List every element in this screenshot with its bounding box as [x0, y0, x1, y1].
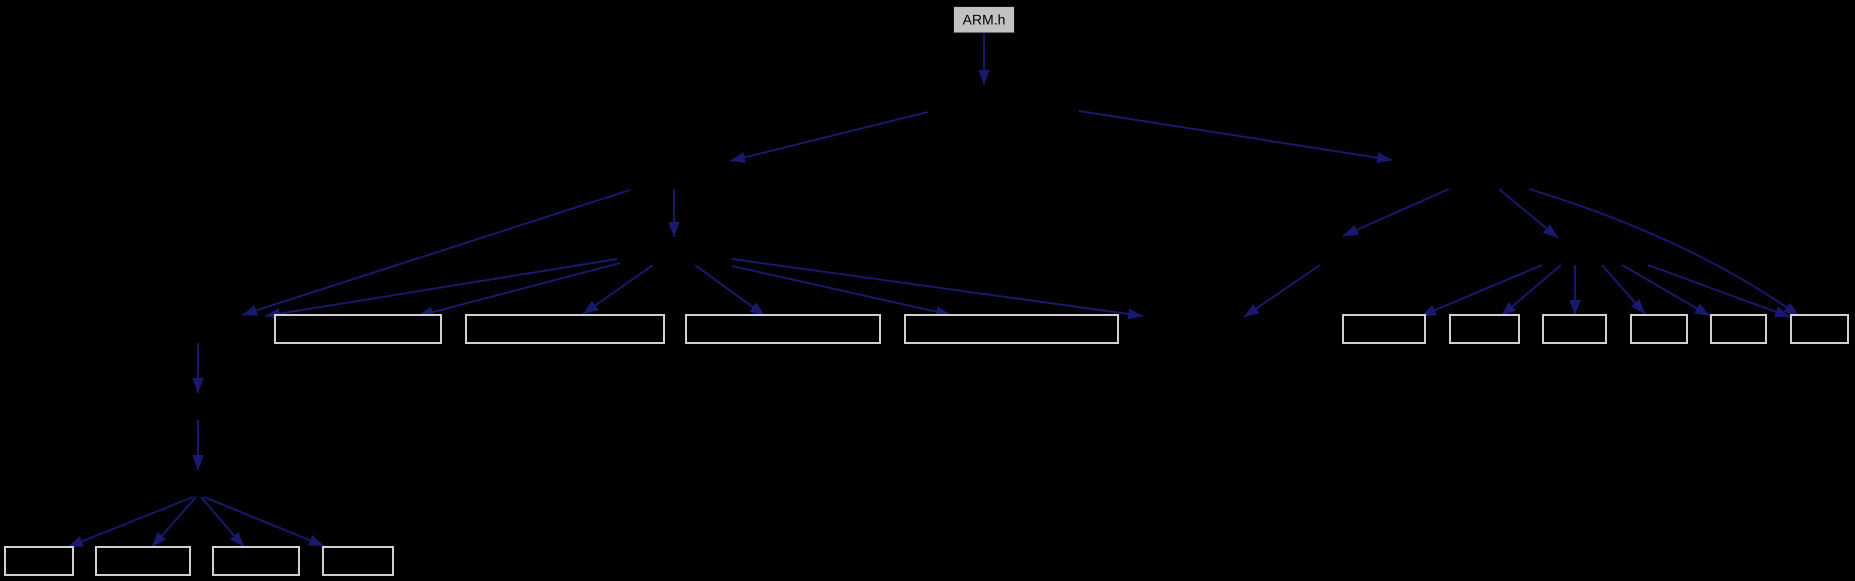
edge node6->node6b [197, 420, 199, 470]
edge nodeR2->node5-5 [1244, 265, 1320, 317]
edge nodeR3->boxB [1501, 265, 1561, 316]
edge nodeR3->boxE [1622, 265, 1710, 316]
edge node4->box5-2 [583, 265, 653, 314]
boxD [1631, 315, 1687, 343]
edge ARM.h->node2 [983, 33, 985, 85]
box5-4 [905, 315, 1118, 343]
edge node3->node4 [673, 189, 675, 237]
edge nodeR1->boxF (long curve) [1529, 189, 1799, 316]
boxG2 [96, 547, 190, 575]
boxG1 [5, 547, 73, 575]
edge node6b->G3 [201, 497, 244, 547]
boxF [1791, 315, 1848, 343]
edge node5-0->node6 [197, 343, 199, 393]
edge nodeR3->boxA [1421, 265, 1542, 316]
edge nodeR3->boxD [1602, 265, 1645, 314]
edge nodeR3->boxF [1648, 265, 1790, 317]
edge node4->node5-5 [732, 259, 1143, 316]
edge node2->nodeR1 [1079, 111, 1392, 160]
node ARM.h (root, filled) [954, 7, 1015, 34]
boxE [1711, 315, 1766, 343]
edge node6b->G1 [68, 497, 193, 547]
edge node4->box5-3 [695, 265, 765, 316]
edge node4->box5-4 [732, 266, 951, 315]
edge node4->node5-0 [265, 259, 617, 316]
edge node4->box5-1 [418, 263, 620, 316]
box5-3 [686, 315, 880, 343]
box5-2 [466, 315, 664, 343]
box5-1 [275, 315, 441, 343]
edge node3->node5-0 [242, 190, 630, 315]
edge nodeR3->boxC [1574, 265, 1576, 315]
edge node2->node3 [730, 112, 928, 161]
edge node6b->G4 [204, 497, 324, 546]
boxG4 [323, 547, 393, 575]
edge node6b->G2 [152, 497, 196, 547]
boxC [1543, 315, 1606, 343]
boxG3 [213, 547, 299, 575]
boxB [1450, 315, 1519, 343]
edge nodeR1->nodeR2 [1343, 189, 1449, 236]
boxA [1343, 315, 1425, 343]
edge nodeR1->nodeR3 [1499, 189, 1558, 238]
